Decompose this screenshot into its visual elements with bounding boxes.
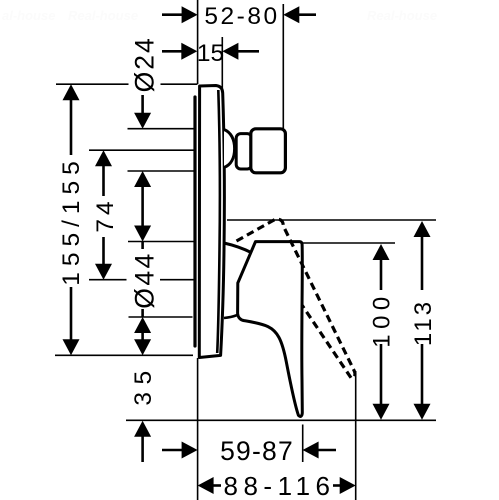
ext line 113 top (y220) bbox=[227, 219, 436, 221]
escutcheon back lip bbox=[193, 97, 196, 346]
diverter knob end cap bbox=[251, 129, 286, 173]
svg-text:Ø44: Ø44 bbox=[129, 251, 159, 309]
svg-text:74: 74 bbox=[92, 197, 119, 232]
sleeve bottom edge bbox=[224, 315, 237, 318]
ext line hub bottom (y317) bbox=[129, 316, 193, 318]
svg-text:35: 35 bbox=[130, 363, 157, 405]
ext line dashed-handle tip x355.7 bbox=[355, 371, 357, 500]
ext line plate top (y84) bbox=[56, 83, 198, 85]
dimension 155/155 (x71) bbox=[58, 84, 85, 355]
watermark bbox=[2, 8, 437, 23]
sleeve top edge bbox=[224, 243, 252, 253]
ext line hub top (y241.5) bbox=[128, 241, 194, 243]
dimension O24 (text + outside arrows at x142.6) bbox=[130, 36, 160, 241]
ext line knob bottom (y171) bbox=[128, 170, 194, 172]
dimension 74 (x103.5) bbox=[92, 150, 119, 280]
svg-text:155/155: 155/155 bbox=[58, 155, 85, 286]
svg-text:113: 113 bbox=[410, 299, 437, 346]
diverter knob dome bbox=[224, 130, 235, 168]
svg-text:59-87: 59-87 bbox=[220, 436, 294, 466]
svg-text:52-80: 52-80 bbox=[204, 3, 279, 30]
dimension O44 (text + outside arrows) bbox=[129, 242, 159, 356]
diverter knob ring bbox=[236, 134, 252, 169]
handle lever dashed (up position) bbox=[237, 219, 355, 378]
svg-text:88-116: 88-116 bbox=[223, 471, 335, 500]
ext line knob axis (y150) bbox=[89, 149, 194, 151]
ext line plate bottom (y355.3) bbox=[55, 354, 193, 356]
svg-text:15: 15 bbox=[197, 40, 224, 67]
handle lever (solid, down position) bbox=[238, 242, 303, 417]
ext line knob top (y128.7) bbox=[128, 128, 194, 130]
escutcheon inner face line bbox=[217, 90, 220, 353]
svg-text:Real-house: Real-house bbox=[68, 8, 138, 23]
dimension 88-116 (y485.5) bbox=[198, 471, 356, 500]
svg-text:al-house: al-house bbox=[2, 8, 55, 23]
svg-text:Real-house: Real-house bbox=[367, 8, 437, 23]
ext line handle axis (y279.7, gap for O44 text) bbox=[89, 279, 194, 281]
ext line plate face x222.3 bbox=[221, 37, 223, 90]
dimension 100 (x381) bbox=[368, 244, 395, 420]
ext line wall x197.6 lower bbox=[197, 358, 199, 500]
ext line knob end x283.3 bbox=[282, 4, 284, 129]
ext line wall x197.6 upper bbox=[197, 0, 199, 84]
ext line 100 top (y243) bbox=[303, 242, 395, 244]
baseline handle bottom (y420.3) bbox=[126, 419, 436, 421]
ext line handle tip x302.7 bbox=[302, 425, 304, 463]
dimension 113 (x422) bbox=[410, 221, 437, 420]
escutcheon plate outline bbox=[199, 86, 224, 358]
dimension 59-87 (y450) bbox=[162, 436, 336, 466]
svg-text:100: 100 bbox=[368, 291, 395, 348]
dimension 15 bbox=[162, 40, 259, 67]
dimension 35 (text + outside arrows) bbox=[130, 363, 157, 462]
svg-text:Ø24: Ø24 bbox=[130, 36, 160, 92]
dimension 52-80 bbox=[162, 3, 316, 30]
